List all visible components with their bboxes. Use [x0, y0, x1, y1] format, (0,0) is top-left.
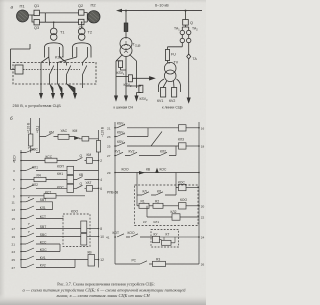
svg-text:+СЦ: +СЦ [35, 126, 39, 133]
svg-text:КЛ2: КЛ2 [171, 210, 177, 214]
left rail [20, 150, 22, 268]
svg-text:12: 12 [100, 258, 104, 262]
svg-text:УАС: УАС [61, 129, 68, 133]
svg-text:КОС: КОС [160, 168, 167, 172]
svg-text:КОО: КОО [122, 168, 129, 172]
feeder arrow 1 [40, 84, 43, 98]
wire crossing to changeover contacts [41, 57, 88, 63]
svg-text:5: 5 [13, 178, 15, 182]
svg-text:16: 16 [201, 126, 205, 130]
contact KSV.1 [50, 63, 54, 85]
wire ТСЦБ fan-out [116, 55, 137, 62]
svg-text:КОС: КОС [178, 181, 185, 185]
wire lower bus [45, 21, 78, 23]
relay coil КV2 [172, 88, 177, 98]
svg-text:КV2: КV2 [169, 99, 175, 103]
svg-text:КЛ: КЛ [143, 189, 147, 193]
feeder arrow СН-1 [115, 96, 118, 101]
svg-text:17: 17 [12, 227, 16, 231]
wire bus to ТСЦБ fuse [125, 11, 127, 23]
svg-text:29: 29 [107, 171, 111, 175]
relay coil КV1 [161, 88, 166, 98]
scanned page background [0, 0, 206, 305]
right ladder left rail [114, 122, 116, 264]
svg-text:R2: R2 [155, 199, 159, 203]
svg-text:ТА: ТА [193, 57, 198, 61]
svg-text:250 В, к устройствам СЦБ: 250 В, к устройствам СЦБ [13, 104, 62, 108]
svg-text:а — схема питания устройства С: а — схема питания устройства СЦБ; б — сх… [22, 287, 186, 292]
svg-text:б: б [10, 116, 13, 121]
svg-text:23: 23 [107, 135, 111, 139]
svg-text:22: 22 [201, 216, 205, 220]
svg-text:11: 11 [12, 200, 15, 204]
svg-text:Т1: Т1 [60, 31, 64, 35]
svg-text:6–10 кВ: 6–10 кВ [155, 4, 169, 8]
svg-text:КОС: КОС [57, 185, 64, 189]
resistor R inner [162, 240, 172, 245]
svg-text:КV2: КV2 [40, 264, 46, 268]
svg-text:27: 27 [12, 266, 16, 270]
wire T1 secondary [49, 47, 60, 57]
wire to T2 [81, 22, 83, 28]
svg-text:20: 20 [201, 204, 205, 208]
svg-text:П1: П1 [20, 4, 26, 9]
wire to FU [168, 47, 183, 50]
svg-text:КМ: КМ [87, 153, 92, 157]
svg-text:18: 18 [201, 145, 205, 149]
svg-text:8: 8 [100, 227, 102, 231]
svg-text:1: 1 [13, 159, 15, 163]
wire pass-through feeders [41, 63, 58, 85]
svg-text:R4: R4 [37, 173, 41, 177]
wire Q2/Q4 to П2 [84, 13, 88, 23]
svg-text:РПВ-58: РПВ-58 [107, 191, 118, 195]
wire under КV coils [159, 88, 181, 93]
feeder arrow СЦБ [187, 98, 190, 103]
feeder arrow СН-2 [125, 96, 128, 101]
svg-text:КЛ3: КЛ3 [178, 138, 184, 142]
svg-text:Q: Q [190, 21, 193, 25]
svg-text:Q: Q [80, 154, 83, 158]
svg-text:21: 21 [12, 243, 16, 247]
svg-text:R1: R1 [141, 199, 145, 203]
svg-text:7: 7 [13, 187, 15, 191]
svg-text:Т2: Т2 [88, 31, 92, 35]
svg-text:19: 19 [12, 235, 16, 239]
dashed box РПВ-58 [135, 185, 199, 226]
svg-text:25: 25 [107, 145, 111, 149]
figure caption [22, 282, 186, 299]
svg-text:25: 25 [12, 258, 16, 262]
svg-text:24: 24 [201, 236, 205, 240]
svg-text:КМ: КМ [73, 129, 78, 133]
star symbol in ТСЦБ [124, 41, 128, 53]
dashed box КУ [151, 230, 179, 248]
winding of T1 [45, 43, 64, 58]
svg-text:УАТ: УАТ [86, 181, 92, 185]
bus 6-10 kV with left arrow [120, 10, 202, 12]
svg-text:Q1: Q1 [34, 4, 39, 8]
mechanical link (dashed) [23, 69, 80, 71]
wire upper bus [45, 12, 78, 14]
svg-text:КV2: КV2 [129, 150, 135, 154]
feeder arrow 3 [58, 84, 64, 98]
svg-text:3: 3 [13, 169, 15, 173]
svg-text:FU: FU [171, 53, 176, 57]
winding fan of ТV [158, 79, 180, 88]
wire coil feed [11, 44, 31, 70]
svg-text:КОТ: КОТ [113, 231, 119, 235]
svg-text:2: 2 [100, 159, 102, 163]
svg-text:КV1: КV1 [157, 99, 163, 103]
svg-text:SBT: SBT [40, 198, 46, 202]
right ladder right rail [198, 122, 200, 264]
svg-text:Q2: Q2 [78, 4, 83, 8]
svg-text:Рис. 3.7. Схема переключения п: Рис. 3.7. Схема переключения питания уст… [57, 282, 155, 287]
wire split after Q [182, 25, 188, 30]
junction dots right ladder [114, 127, 200, 238]
svg-text:21: 21 [107, 126, 111, 130]
contact KSV.3 [83, 63, 87, 85]
svg-text:к шинам СН: к шинам СН [114, 106, 134, 110]
svg-text:26: 26 [201, 263, 205, 267]
svg-text:6: 6 [100, 187, 102, 191]
svg-text:15: 15 [12, 217, 16, 221]
svg-text:4: 4 [100, 178, 102, 182]
feeder arrow 4 [67, 84, 77, 98]
wire numbers mid column [106, 126, 111, 239]
svg-text:КОО: КОО [180, 198, 187, 202]
wire phase lines СН [116, 61, 137, 97]
coil КУ [153, 236, 160, 242]
svg-text:КН1: КН1 [57, 172, 63, 176]
svg-text:13: 13 [12, 208, 16, 212]
relay coil KSV [15, 65, 23, 74]
svg-text:КЛ1: КЛ1 [154, 220, 160, 224]
feeder arrow СН-3 [135, 93, 138, 101]
svg-text:к линии СЦБ: к линии СЦБ [162, 106, 183, 110]
svg-text:R3: R3 [156, 257, 160, 261]
svg-text:КОО: КОО [71, 210, 78, 214]
svg-text:КОП: КОП [57, 164, 64, 168]
svg-text:П2: П2 [91, 3, 97, 8]
svg-text:КV1: КV1 [115, 150, 121, 154]
wire to T1 [53, 22, 55, 28]
resistor on -110 rail [96, 141, 100, 153]
svg-text:КУ: КУ [143, 220, 147, 224]
svg-text:РС: РС [132, 259, 137, 263]
svg-text:–110 В: –110 В [101, 126, 105, 137]
changeover box (dashed) [13, 63, 96, 85]
svg-text:КОО: КОО [128, 231, 135, 235]
svg-text:9: 9 [13, 194, 15, 198]
svg-text:а: а [11, 5, 14, 10]
svg-text:линии; в — схема питания линии: линии; в — схема питания линии СЦБ от ши… [55, 293, 150, 298]
fuse ТСЦБ branch [124, 23, 128, 32]
wire П1 to Q1/Q3 [29, 14, 35, 16]
dashed box КОО/КОТ [63, 214, 90, 247]
svg-text:41: 41 [106, 236, 110, 240]
feeder arrow 2 [50, 84, 55, 98]
winding of T2 [73, 43, 92, 58]
svg-text:+110 В: +110 В [27, 122, 31, 133]
contact KSV.2 [67, 63, 71, 85]
arrow tap to ladder [132, 77, 154, 80]
resistor on +110 rail [29, 134, 33, 146]
wire Q1/Q3 to buses [32, 13, 45, 22]
svg-text:КМ: КМ [49, 131, 54, 135]
svg-text:Q3: Q3 [34, 26, 39, 30]
wire stub contact 3 [82, 84, 84, 88]
svg-text:10: 10 [100, 235, 104, 239]
wire bus to Q [185, 11, 187, 20]
wire numbers left column [12, 159, 16, 270]
junction dots left rail [20, 152, 99, 261]
svg-text:23: 23 [12, 250, 16, 254]
svg-text:27: 27 [107, 154, 111, 158]
wire T2 secondary [77, 47, 88, 57]
svg-text:КТ: КТ [166, 233, 170, 237]
